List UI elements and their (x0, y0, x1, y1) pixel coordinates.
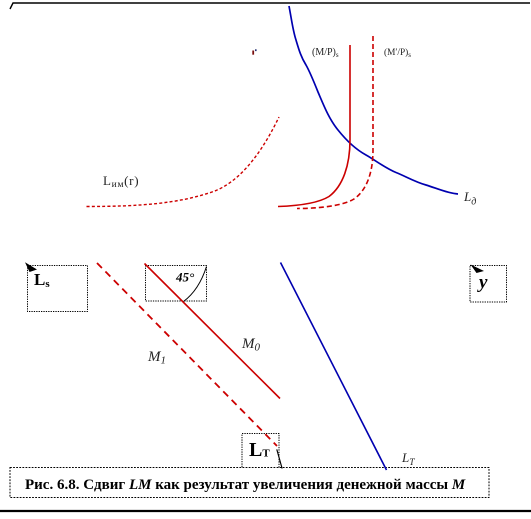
line: M0 supply split (bottom-left, red solid 45deg) (145, 264, 281, 399)
svg-text:45°: 45° (175, 270, 195, 285)
svg-text:Lим(r): Lим(r) (103, 173, 139, 190)
svg-text:M1: M1 (147, 349, 166, 367)
box y (470, 266, 507, 303)
leftover ink wedge near y box (471, 265, 485, 274)
frame top line (10, 3, 530, 9)
leftover ink wedge near Ls box (25, 262, 37, 272)
label M1 (147, 349, 166, 367)
box Ls (28, 266, 88, 312)
label M0 (241, 336, 261, 354)
line: transactions demand (bottom-right, blue) (281, 263, 387, 471)
svg-text:(M/P)s: (M/P)s (312, 47, 339, 59)
svg-text:Рис. 6.8. Сдвиг LM как результ: Рис. 6.8. Сдвиг LM как результат увеличе… (25, 477, 466, 493)
label Lt (end of blue line) (401, 450, 415, 468)
box 45 (146, 266, 207, 302)
leftover ink line near Lt box (277, 449, 282, 468)
svg-text:y: y (477, 272, 488, 293)
45deg angle arc (184, 267, 207, 302)
svg-text:Lд: Lд (463, 189, 476, 208)
label (M/P)s (312, 47, 339, 59)
label Ld (end of blue hyperbola) (463, 189, 476, 208)
tiny stray mark (252, 49, 256, 54)
line: M1 supply split (bottom-left, red dashed 45deg) (97, 263, 277, 446)
curve: money demand hyperbola (top-right, blue) (289, 6, 458, 194)
curve: asset demand (top-left, red dashed) (87, 117, 280, 207)
caption box (10, 468, 489, 498)
label (M'/P)s (384, 47, 411, 59)
svg-text:M0: M0 (241, 336, 261, 354)
label Lim(r) (top-left curve label) (103, 173, 139, 190)
svg-text:LT: LT (401, 450, 415, 468)
svg-text:(M′/P)s: (M′/P)s (384, 47, 411, 59)
curve: money supply M/P (top-right, red solid) (278, 45, 350, 207)
box Lt (242, 434, 279, 469)
curve: money supply M1/P (top-right, red dashed) (297, 36, 373, 209)
frame bottom line (0, 510, 531, 512)
